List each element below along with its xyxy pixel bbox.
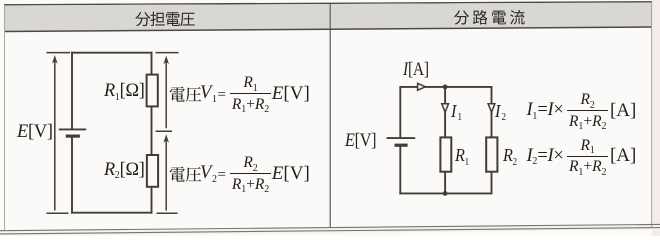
- wire branch 1: [444, 87, 446, 193]
- label 電圧 for V2 formula: [170, 167, 202, 182]
- formula I2: [527, 138, 637, 175]
- wire left upper to battery: [399, 86, 401, 138]
- wire bottom: [399, 192, 492, 194]
- battery E short plate: [66, 135, 80, 138]
- label R2 right panel: [503, 146, 517, 164]
- formula I1: [527, 92, 637, 129]
- header title 分路電流: [454, 10, 525, 25]
- bottom double rule line 2: [0, 228, 660, 234]
- label I2: [495, 102, 506, 120]
- battery E long plate: [387, 137, 416, 139]
- resistor R2 box: [486, 137, 497, 171]
- bottom double rule line 1: [0, 224, 660, 230]
- label E[V] right: [345, 131, 376, 150]
- junction dot bottom: [443, 191, 448, 196]
- E[V] dimension arrow up: [52, 55, 58, 211]
- wire branch 2: [491, 86, 493, 193]
- wire right: [151, 52, 153, 214]
- tick top-right: [156, 52, 179, 54]
- label R1[Ω]: [104, 81, 145, 100]
- header band fill: [4, 3, 652, 32]
- V1 dimension arrow up: [163, 56, 169, 129]
- V2 dimension arrow up: [163, 134, 169, 210]
- formula V1: [200, 75, 310, 112]
- battery E short plate: [395, 144, 408, 147]
- current I2 arrow open triangle down: [488, 104, 495, 113]
- page strip below bottom rule: [0, 225, 660, 236]
- table top border: [4, 2, 652, 5]
- label R1 right panel: [455, 146, 469, 164]
- wire left lower from battery: [71, 136, 73, 214]
- resistor R2 box: [147, 155, 158, 187]
- wire top: [71, 52, 152, 54]
- label R2[Ω]: [104, 160, 145, 179]
- wire left lower from battery: [399, 145, 401, 194]
- header title 分担電圧: [135, 12, 194, 27]
- tick bottom-left: [47, 212, 69, 214]
- page edge tint right: [652, 0, 660, 236]
- wire top: [400, 86, 492, 88]
- current I arrow open triangle right: [418, 83, 426, 90]
- resistor R1 box: [147, 75, 158, 107]
- header band bottom border: [4, 27, 652, 32]
- junction dot top: [443, 85, 448, 90]
- formula V2: [200, 155, 310, 192]
- resistor R1 box: [440, 137, 451, 171]
- column divider: [329, 3, 331, 228]
- label I1: [451, 102, 462, 120]
- battery E long plate: [59, 128, 86, 130]
- wire left upper to battery: [71, 52, 73, 130]
- wire bottom: [71, 212, 152, 214]
- table left border: [4, 5, 6, 231]
- tick bottom-right: [157, 212, 178, 214]
- label I[A]: [403, 60, 429, 79]
- tick middle-right: [156, 130, 173, 132]
- current I1 arrow open triangle down: [442, 104, 449, 113]
- tick top-left: [47, 52, 71, 54]
- label 電圧 for V1 formula: [170, 87, 202, 102]
- label E[V] left: [17, 122, 53, 141]
- table right border: [651, 2, 653, 227]
